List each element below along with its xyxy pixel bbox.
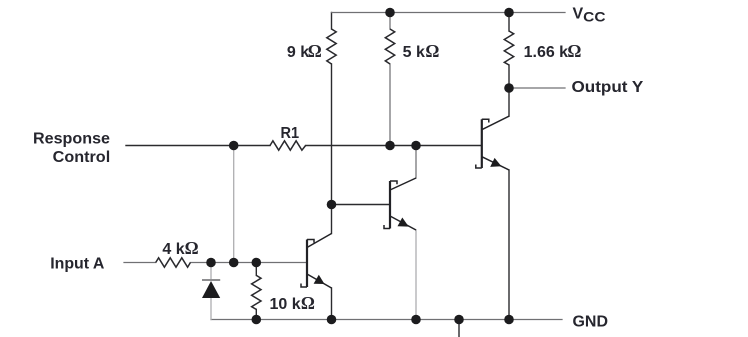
junction dot: gnd / stub — [454, 315, 464, 325]
junction dot: node A (9k / Q1 collector / Q2 base) — [327, 200, 337, 210]
wire: 10k top lead — [255, 263, 257, 276]
junction dot: gnd / Q3 emitter — [504, 315, 514, 325]
wire: Response Control line right of R1 — [306, 145, 482, 147]
wire: 9k top lead — [331, 13, 333, 30]
transistor Q1 (input) — [301, 234, 332, 289]
junction dot: response line / down wire — [229, 141, 239, 151]
junction dot: response line / 5k bottom — [385, 141, 395, 151]
wire: diode bottom lead — [210, 298, 212, 320]
svg-text:CC: CC — [583, 8, 605, 24]
junction dot: input line / 10k — [251, 258, 261, 268]
svg-text:4 kΩ: 4 kΩ — [162, 238, 198, 258]
resistor 10k zigzag — [252, 275, 261, 309]
resistor 1.66k zigzag — [504, 31, 513, 65]
transistor Q2 (middle) — [384, 178, 416, 230]
svg-text:V: V — [573, 6, 584, 23]
svg-text:Response: Response — [33, 130, 110, 147]
wire: 5k top lead — [389, 13, 391, 30]
svg-text:Output Y: Output Y — [572, 79, 644, 96]
wire: node A to Q2 base — [332, 204, 391, 206]
wire: VCC top rail — [332, 12, 566, 14]
wire: 1.66k bottom lead to output node — [508, 65, 510, 88]
junction dot: gnd / 10k — [251, 315, 261, 325]
resistor R1 zigzag — [270, 141, 306, 150]
wire: diode top lead — [210, 263, 212, 281]
wire: Input A line left of 4k resistor — [124, 262, 156, 264]
resistor 9k zigzag — [327, 29, 336, 64]
wire: response control to input line vertical — [233, 146, 235, 263]
svg-text:5 kΩ: 5 kΩ — [403, 41, 440, 61]
junction dot: input line / control wire — [229, 258, 239, 268]
diode D1 (input clamp) — [202, 280, 220, 298]
wire: Q2 collector vertical — [415, 146, 417, 179]
wire: 9k bottom lead down to node A — [331, 64, 333, 205]
junction dot: gnd / Q2 emitter — [411, 315, 421, 325]
svg-text:R1: R1 — [281, 125, 300, 142]
wire: Q3 collector vertical — [508, 88, 510, 116]
svg-text:1.66 kΩ: 1.66 kΩ — [524, 41, 582, 61]
wire: Input A line right of 4k resistor — [190, 262, 307, 264]
junction dot: input line / diode — [206, 258, 216, 268]
resistor 5k zigzag — [385, 29, 394, 64]
light wires — [211, 146, 416, 320]
svg-text:9 kΩ: 9 kΩ — [287, 41, 322, 61]
wire: Response Control line left of R1 — [126, 145, 270, 147]
wire: GND stub down — [458, 320, 460, 337]
svg-text:10 kΩ: 10 kΩ — [270, 293, 315, 313]
junction dot: gnd / Q1 emitter — [327, 315, 337, 325]
wire: 1.66k top lead — [508, 13, 510, 32]
svg-text:Control: Control — [53, 149, 111, 166]
transistor Q3 (output) — [476, 116, 509, 170]
wire: Q1 emitter vertical — [331, 288, 333, 320]
dark wires — [126, 13, 509, 337]
junction dot: top rail / 1.66k — [504, 8, 514, 18]
wire: GND bottom rail — [211, 319, 562, 321]
wire: 5k bottom lead — [389, 64, 391, 146]
junction dot: top rail / 5k — [385, 8, 395, 18]
wire: Output Y lead — [509, 87, 565, 89]
junction dot: response line / Q2 collector — [411, 141, 421, 151]
wire: Q2 emitter vertical — [415, 230, 417, 320]
wire: Q3 emitter vertical — [508, 170, 510, 320]
resistor 4k zigzag — [156, 258, 191, 267]
medium wires — [124, 13, 565, 320]
junction dot: output Y node — [504, 83, 514, 93]
wire: Q1 collector vertical — [331, 205, 333, 234]
wire: 10k bottom lead — [255, 309, 257, 319]
svg-text:GND: GND — [573, 314, 609, 331]
svg-text:Input A: Input A — [50, 255, 105, 272]
